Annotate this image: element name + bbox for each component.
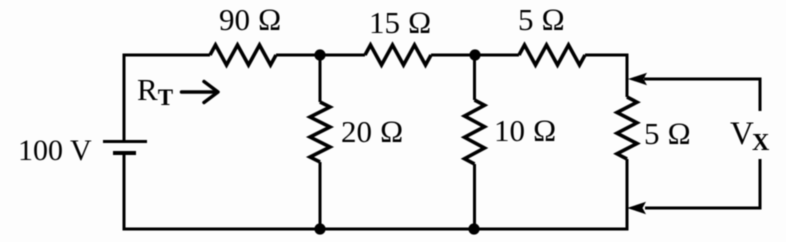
arrowhead Vx bottom [627,202,646,214]
svg-text:90 Ω: 90 Ω [219,2,282,37]
resistor R 20ohm vertical [310,102,330,162]
wire Vx bottom segment [645,159,760,208]
wire left vertical lower [123,154,126,229]
wire bottom rail [123,228,629,231]
node junction dot top 1 [314,49,325,60]
svg-text:100 V: 100 V [18,134,92,167]
svg-text:V: V [730,116,754,152]
node junction dot bottom 1 [314,223,325,234]
resistor R 5ohm top [519,45,585,65]
wire branch 2 lower [473,164,476,229]
svg-text:5 Ω: 5 Ω [518,2,565,37]
wire Vx top arrow line [644,79,760,111]
resistor R 15ohm [365,45,431,65]
node junction dot top 2 [469,49,480,60]
battery V1 long plate [103,140,147,143]
wire right branch lower [626,159,629,229]
arrow RT [182,82,219,103]
wire top rail segment 2 [276,54,365,57]
svg-text:15 Ω: 15 Ω [369,5,432,40]
resistor R 10ohm vertical [465,100,485,164]
resistor R 5ohm right vertical [617,97,637,159]
node junction dot bottom 2 [468,223,479,234]
wire top rail segment 3 [431,54,519,57]
wire left vertical upper [123,55,126,141]
wire branch 1 lower [319,162,322,229]
svg-text:RT: RT [137,72,173,110]
svg-text:5 Ω: 5 Ω [644,116,691,151]
wire branch 2 upper [473,55,476,100]
wire top rail left segment [124,55,210,57]
arrowhead Vx top [628,73,647,85]
battery V1 short plate [113,151,136,155]
wire branch 1 upper [319,55,322,102]
svg-text:10 Ω: 10 Ω [494,113,557,148]
svg-text:20 Ω: 20 Ω [341,114,404,149]
svg-text:X: X [752,130,770,156]
resistor R 90ohm [210,45,276,65]
wire top rail right segment [585,55,627,97]
